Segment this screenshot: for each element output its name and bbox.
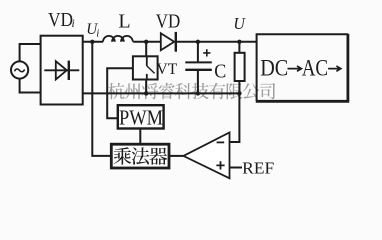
svg-text:AC: AC — [302, 56, 328, 81]
svg-text:i: i — [72, 18, 75, 30]
svg-text:REF: REF — [242, 159, 274, 178]
svg-text:L: L — [118, 11, 130, 33]
svg-text:PWM: PWM — [119, 105, 163, 129]
svg-text:VD: VD — [156, 11, 181, 33]
svg-text:DC: DC — [260, 56, 288, 81]
svg-text:VD: VD — [48, 10, 73, 31]
svg-text:C: C — [214, 61, 226, 83]
svg-text:VT: VT — [157, 61, 178, 78]
svg-text:i: i — [96, 28, 99, 40]
svg-text:U: U — [233, 14, 246, 33]
